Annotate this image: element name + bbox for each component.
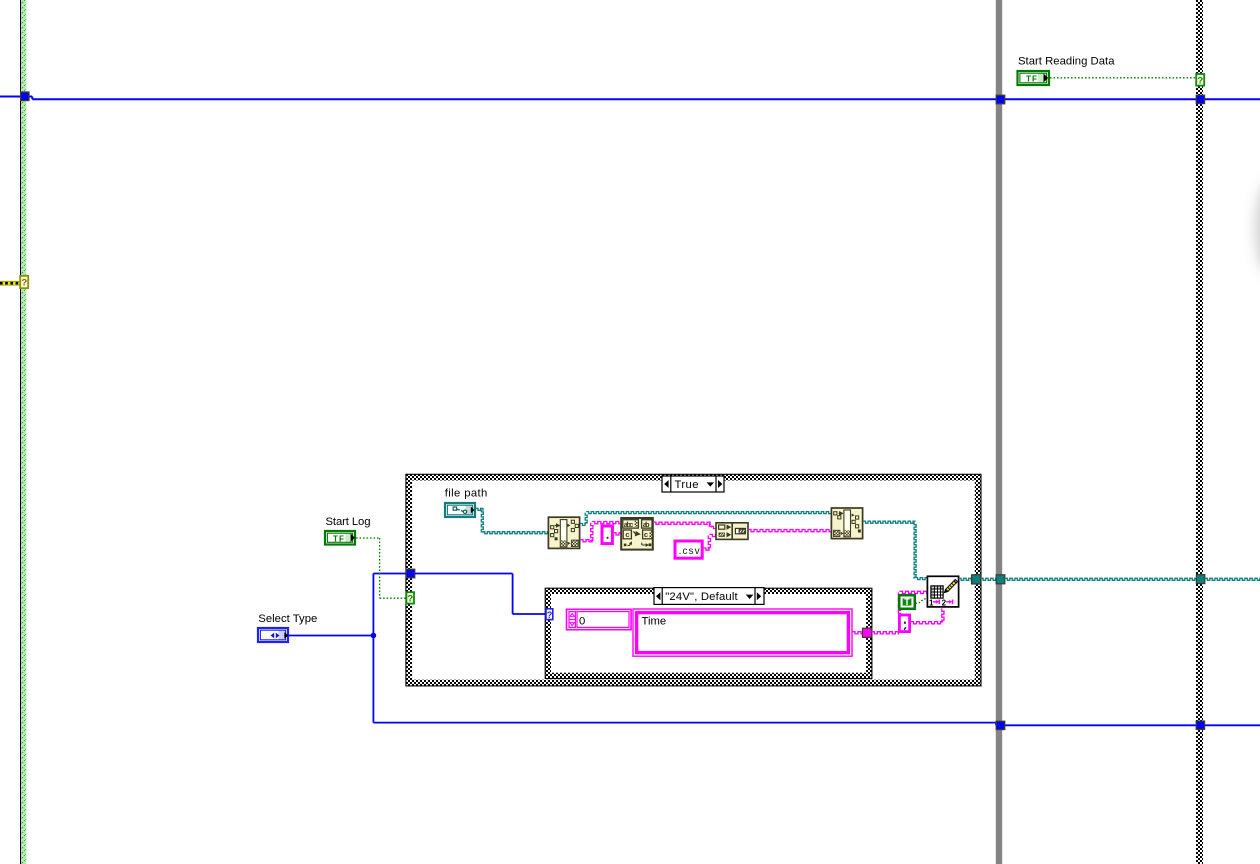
wire: teal Strip Path -> Build Path (top run) [580,524,587,526]
svg-text:True: True [675,479,699,491]
wire: string Time -> tunnel [852,632,863,634]
case selector terminal ? (inner case, numeric) [546,609,553,620]
svg-text:.csv: .csv [679,546,700,557]
tunnel: teal on outer case right border [972,575,981,584]
svg-text:ab: ab [643,522,650,530]
svg-text:Select Type: Select Type [258,613,317,625]
wire: string tunnel -> delimiter node [871,632,899,634]
tunnel: blue on right checkered bar (bottom) [1196,721,1204,729]
wire: blue select-type trunk [289,574,1260,726]
window shadow smudge top right [1256,182,1260,274]
wire: string Strip Path -> jog -> Search/Replace [580,540,592,542]
pane divider gray bar [996,0,1002,864]
svg-text:?: ? [21,278,27,289]
constant: delimiter string [899,615,909,632]
control: file path terminal [445,503,475,517]
wire: boolean dotted from Start Reading Data to ? [1050,77,1196,79]
constant: numeric 0 (framed) [567,609,632,629]
tunnel: magenta on inner case right border [863,628,872,637]
tunnel: blue on gray divider (bottom) [996,721,1005,729]
inner case structure border ("24V", Default) [545,588,872,594]
svg-text:Start Reading Data: Start Reading Data [1018,56,1115,68]
svg-text:T: T [904,597,910,607]
function: Write Delimited Spreadsheet VI icon [927,576,958,607]
wire: path (teal) file path -> Strip Path [476,508,484,510]
wire: string "." -> Search/Replace [613,533,621,535]
svg-text:abc: abc [624,522,634,530]
wire: boolean dotted T -> WDS append input [916,598,928,603]
wire: numeric (blue) top horizontal [0,97,1260,100]
tunnel: teal on right checkered bar [1196,575,1204,584]
svg-text:?: ? [1197,75,1203,86]
tunnel: teal on gray divider [996,575,1005,584]
wire: string delimiter riser to WDS format input [898,592,900,613]
wire: string delimiter -> WDS bottom input [911,622,944,624]
inner case selector label: "24V", Default [654,588,764,605]
svg-text:"24V", Default: "24V", Default [665,591,738,603]
function: Concatenate Strings node [716,523,748,540]
svg-text:Time: Time [642,616,667,628]
svg-text:c: c [644,532,649,540]
svg-text:2: 2 [942,598,947,607]
constant: ".csv" string [675,541,702,558]
case selector terminal ? (error) on left bar [20,276,28,288]
constant: "." string [602,526,612,544]
wire: teal WDS -> tunnels -> right edge [959,578,972,580]
wire: string .csv -> Concatenate in2 [703,548,710,550]
outer case structure border (True case) [406,474,981,480]
control: Select Type enum terminal [258,628,288,642]
function: Build Path VI icon [831,508,862,539]
control: Start Log TF boolean terminal [325,531,355,545]
tunnel: blue on right checkered bar (top) [1196,95,1204,103]
case structure right border (checkered bar) [1196,0,1203,864]
svg-text:TF: TF [1026,75,1038,84]
svg-text:TF: TF [333,534,345,543]
svg-text:c: c [625,532,630,540]
wire: string Concatenate -> Build Path [748,530,831,532]
tunnel: blue on left loop border [21,92,29,101]
function: Strip Path VI icon [548,517,579,548]
svg-text:Start Log: Start Log [326,516,371,528]
outer case selector label: True [662,476,724,492]
control: Start Reading Data TF boolean terminal [1018,71,1050,85]
wire: teal Build Path -> Write Delimited Spreadsheet [863,521,916,523]
constant: True (T) boolean [899,595,915,609]
constant: Time string (big) [633,609,852,656]
tunnel: blue on gray divider (top) [996,95,1005,104]
svg-text:?: ? [407,594,413,605]
case selector terminal ? (outer case, boolean) [406,592,414,603]
wire: blue inside case to inner selector [415,574,546,615]
while loop left border (green hatched) [20,0,21,864]
wire: error cluster (yellow/black dashed) [0,281,20,286]
svg-text:?: ? [547,610,553,620]
tunnel: blue on outer case left border [406,569,415,578]
case selector terminal ? on right checkered bar [1196,74,1204,86]
svg-text:file path: file path [445,488,488,500]
function: Search and Replace String VI icon [621,518,653,550]
wire: string Search/Replace -> Concatenate in1 [653,522,711,524]
svg-text:1: 1 [929,598,934,607]
wire junction dot [371,633,377,639]
wire: boolean dotted from Start Log to outer case selector [356,538,406,598]
svg-text:0: 0 [579,616,585,628]
